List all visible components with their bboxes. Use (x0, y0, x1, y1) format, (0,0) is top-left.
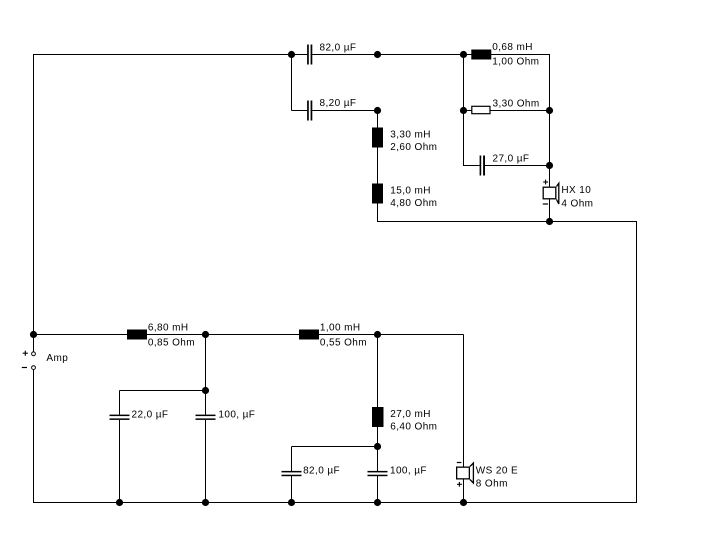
capacitor C5 100, uF (196, 409, 256, 420)
wire: 8,20uF row right segment (312, 110, 377, 112)
wire: top-section bottom rail (377, 221, 637, 223)
wire: woofer branch vertical lower (463, 480, 465, 503)
wire: top rail right segment (312, 54, 550, 56)
inductor L2 15,0 mH 4,80 Ohm (372, 184, 437, 209)
node: bottom rail / 22uF junction (116, 499, 123, 506)
wire: tweeter branch vertical upper (549, 55, 551, 187)
wire: 27,0uF row left stub (464, 165, 480, 167)
node: mid rail / low-pass shunt junction (374, 331, 381, 338)
svg-text:0,68 mH: 0,68 mH (492, 42, 533, 53)
wire: low-pass shunt vertical lower (377, 476, 379, 502)
inductor L1 3,30 mH 2,60 Ohm (372, 128, 437, 153)
svg-text:27,0 mH: 27,0 mH (390, 409, 431, 420)
svg-text:8,20 µF: 8,20 µF (320, 98, 357, 109)
svg-text:22,0 µF: 22,0 µF (132, 409, 169, 420)
svg-text:15,0 mH: 15,0 mH (390, 186, 431, 197)
svg-text:100, µF: 100, µF (218, 409, 255, 420)
wire: parallel-cap branch vertical (291, 55, 293, 111)
wire: far-right return vertical (636, 222, 638, 503)
amplifier source Amp (22, 351, 68, 370)
capacitor C2 8,20 uF (307, 98, 356, 120)
svg-text:1,00 Ohm: 1,00 Ohm (492, 57, 539, 68)
inductor L5 1,00 mH 0,55 Ohm (299, 323, 367, 349)
wire: midrange series chain vertical (377, 111, 379, 223)
wire: 27,0uF row right segment (485, 165, 550, 167)
speaker U2 WS 20 E 8 Ohm (457, 463, 518, 490)
node: bottom rail / 100uF-a junction (202, 499, 209, 506)
wire: mid rail (34, 334, 464, 336)
svg-text:2,60 Ohm: 2,60 Ohm (390, 142, 437, 153)
wire: 8,20uF row left stub (292, 110, 308, 112)
capacitor C7 100, uF (368, 465, 427, 476)
resistor R1 3,30 Ohm (472, 98, 540, 113)
wire: left rail lower (33, 370, 35, 503)
capacitor C3 27,0 uF (480, 154, 530, 176)
svg-text:82,0 µF: 82,0 µF (320, 42, 357, 53)
node: tweeter minus / bottom rail junction (546, 218, 553, 225)
svg-text:1,00 mH: 1,00 mH (320, 323, 361, 334)
svg-text:HX 10: HX 10 (561, 185, 591, 196)
svg-text:6,80 mH: 6,80 mH (148, 323, 189, 334)
node: resistor row right junction (546, 107, 553, 114)
svg-text:3,30 mH: 3,30 mH (390, 130, 431, 141)
wire: low-pass shunt vertical upper (377, 335, 379, 471)
node: mid rail / 100uF-a branch junction (202, 331, 209, 338)
svg-text:3,30 Ohm: 3,30 Ohm (493, 98, 540, 109)
svg-text:82,0 µF: 82,0 µF (303, 465, 340, 476)
wire: 22uF jog (120, 390, 206, 392)
wire: 82uF-b jog (292, 446, 378, 448)
wire: 22uF branch lower (119, 420, 121, 503)
inductor L6 27,0 mH 6,40 Ohm (372, 407, 437, 432)
svg-text:0,55 Ohm: 0,55 Ohm (320, 338, 367, 349)
node: 82uF-b jog junction (374, 443, 381, 450)
wire: 82uF-b branch lower (291, 476, 293, 502)
node: left rail / mid rail junction (30, 331, 37, 338)
node: bottom rail / woofer plus junction (460, 499, 467, 506)
svg-text:8 Ohm: 8 Ohm (476, 478, 508, 489)
node: top rail / cap branch junction (288, 51, 295, 58)
wire: resistor row (464, 110, 550, 112)
speaker U1 HX 10 4 Ohm (543, 180, 594, 210)
node: 27,0uF row right junction (546, 162, 553, 169)
node: 8,20uF row / midrange chain junction (374, 107, 381, 114)
inductor L4 6,80 mH 0,85 Ohm (127, 323, 195, 349)
svg-text:100, µF: 100, µF (390, 465, 427, 476)
node: bottom rail / 100uF-b junction (374, 499, 381, 506)
inductor L3 0,68 mH 1,00 Ohm (471, 42, 539, 67)
wire: top rail left segment (34, 54, 308, 56)
wire: tweeter branch vertical lower (549, 200, 551, 223)
wire: 100uF-a branch upper (205, 335, 207, 415)
svg-text:6,40 Ohm: 6,40 Ohm (390, 421, 437, 432)
capacitor C6 82,0 uF (282, 465, 341, 476)
wire: 100uF-a branch lower (205, 420, 207, 503)
svg-text:Amp: Amp (46, 353, 68, 364)
svg-text:0,85 Ohm: 0,85 Ohm (148, 338, 195, 349)
capacitor C1 82,0 uF (307, 42, 356, 64)
svg-text:27,0 µF: 27,0 µF (493, 154, 530, 165)
node: top rail / midrange chain junction (374, 51, 381, 58)
wire: woofer branch vertical upper (463, 335, 465, 467)
svg-text:4,80 Ohm: 4,80 Ohm (390, 198, 437, 209)
node: 22uF jog junction (202, 387, 209, 394)
node: top rail / tweeter sub-branch junction (460, 51, 467, 58)
wire: bottom rail (34, 502, 638, 504)
node: resistor row left junction (460, 107, 467, 114)
capacitor C4 22,0 uF (110, 409, 169, 420)
svg-text:4 Ohm: 4 Ohm (561, 198, 593, 209)
wire: left rail upper (33, 54, 35, 352)
wire: 82uF-b branch upper (291, 447, 293, 471)
node: bottom rail / 82uF-b junction (288, 499, 295, 506)
svg-text:WS 20 E: WS 20 E (476, 465, 518, 476)
wire: 22uF branch upper (119, 391, 121, 415)
wire: tweeter sub-branch vertical (463, 55, 465, 167)
